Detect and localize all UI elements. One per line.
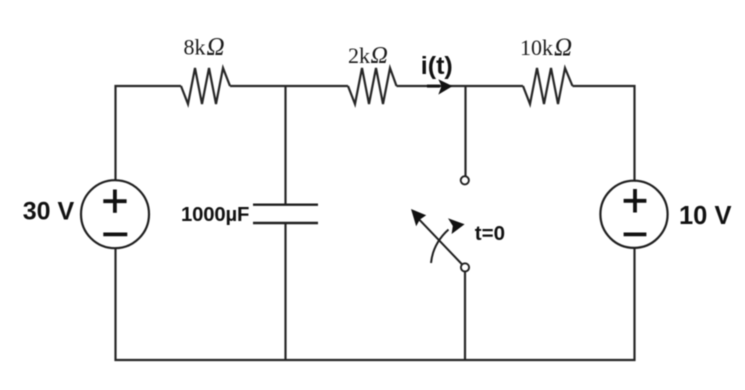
svg-text:2kΩ: 2kΩ [348,43,388,69]
current arrow i(t) [427,79,453,94]
wire bottom rail [115,359,636,361]
wire right vertical lower [633,248,635,362]
svg-text:t=0: t=0 [475,222,505,245]
svg-text:10 V: 10 V [679,202,731,230]
wire capacitor bottom lead [284,223,286,360]
switch SW t=0 [411,176,469,271]
svg-text:i(t): i(t) [421,52,453,80]
svg-text:10kΩ: 10kΩ [520,34,572,61]
wire left vertical lower [114,248,116,361]
voltage source V1 30 V [81,180,149,248]
wire top rail left (corner to 8k resistor) [116,86,182,181]
svg-text:30 V: 30 V [23,198,75,226]
resistor R 10kΩ [523,68,573,104]
svg-text:8kΩ: 8kΩ [184,34,225,61]
wire top rail between 8k and 2k (through capacitor node) [230,85,348,87]
voltage source V2 10 V [600,181,667,248]
capacitor C 1000µF [253,205,318,223]
wire top rail between 2k and 10k (through switch node) [397,85,524,87]
wire capacitor top lead [284,86,286,205]
wire switch bottom lead [464,271,466,360]
svg-text:1000µF: 1000µF [181,204,249,226]
resistor R 8kΩ [181,68,230,104]
resistor R 2kΩ [348,68,397,104]
wire switch top lead [464,86,466,176]
wire top rail right (10k to right corner) [573,86,635,181]
